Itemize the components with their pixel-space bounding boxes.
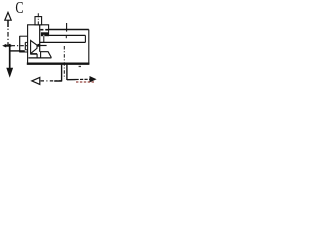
svg-text:C: C — [15, 0, 23, 18]
